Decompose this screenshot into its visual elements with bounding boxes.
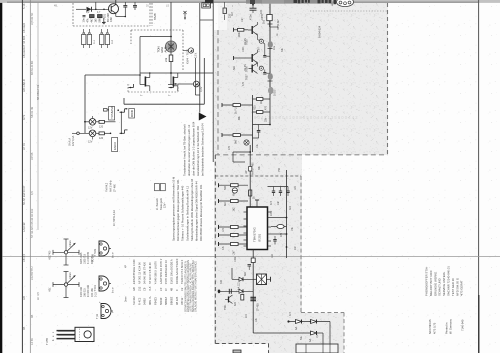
svg-text:LF 4,5: LF 4,5 (36, 292, 40, 300)
svg-text:T501: T501 (224, 304, 227, 310)
svg-text:4B 325: 4B 325 (175, 296, 179, 305)
jack corner 3 (129, 84, 134, 88)
svg-text:44 040 186: 44 040 186 (87, 284, 90, 297)
package P1 pin labels (111, 252, 115, 258)
svg-text:1k8: 1k8 (271, 253, 274, 258)
return wire (124, 58, 204, 104)
svg-text:5BB4Z: 5BB4Z (164, 297, 168, 305)
wire emitter (115, 13, 117, 16)
svg-text:4k7: 4k7 (90, 18, 94, 23)
wire h279 left (232, 268, 253, 279)
wire top rail to pot (170, 2, 172, 41)
lamp LA2 (72, 130, 96, 144)
svg-text:560: 560 (224, 185, 227, 190)
module border bottom of tuner (215, 154, 388, 156)
svg-text:470: 470 (280, 232, 283, 237)
module border radio bottom (215, 343, 268, 345)
svg-text:2n2: 2n2 (245, 313, 248, 318)
module border tuner right (387, 3, 389, 155)
wire drop x253 (252, 4, 254, 8)
resistor R601 (90, 15, 95, 23)
ladder rail left (252, 95, 254, 152)
svg-text:6k8: 6k8 (244, 271, 247, 276)
wire y75 (85, 74, 140, 76)
potentiometer TON (165, 41, 176, 52)
wire input (76, 8, 86, 10)
capacitor C601 (123, 2, 127, 16)
svg-text:UP 05: UP 05 (30, 152, 34, 160)
svg-text:4B: 4B (54, 4, 57, 7)
svg-text:AB 4,5: AB 4,5 (22, 253, 26, 262)
wire branch left (139, 37, 141, 85)
cross2 value list (80, 284, 97, 297)
transistor package P3 (96, 304, 113, 320)
svg-text:3045 1505: 3045 1505 (80, 252, 83, 264)
resistor R651 (262, 4, 279, 27)
wire pot tie (140, 36, 171, 38)
svg-text:HF 3N: HF 3N (244, 64, 247, 71)
package P1 note (92, 253, 95, 262)
svg-text:50u: 50u (300, 335, 303, 340)
resistor R672 (219, 199, 249, 212)
margin line 3 (37, 2, 39, 230)
svg-text:ST 42 071 B 40 40: ST 42 071 B 40 40 (148, 262, 152, 284)
top rule (0, 0, 500, 3)
resistor R676 (219, 242, 249, 255)
boxed label TONBAND (109, 106, 115, 120)
svg-text:LAUTSPR 4O POTI 1: LAUTSPR 4O POTI 1 (159, 258, 163, 284)
horizontal separator rule (2, 255, 500, 257)
svg-text:220k: 220k (270, 210, 273, 216)
bus tie (200, 19, 213, 21)
svg-text:1505 718: 1505 718 (84, 253, 87, 264)
module border radio bottom drop (268, 344, 270, 353)
labels cluster top right (261, 13, 280, 30)
resistor R671 (219, 183, 249, 196)
svg-text:GRUNDIG WERKE: GRUNDIG WERKE (433, 272, 437, 296)
svg-text:100k: 100k (234, 256, 237, 262)
diode D671 (239, 277, 243, 281)
cluster c1 (104, 109, 110, 112)
inner dashed box top (215, 175, 301, 177)
ghost text band (254, 115, 358, 120)
svg-text:41 150 705: 41 150 705 (87, 251, 90, 264)
svg-text:ZF 460: ZF 460 (114, 183, 117, 192)
labels ladder (254, 105, 268, 122)
wire pin right 234 (271, 233, 287, 235)
wire pin right 217 (271, 217, 287, 219)
svg-text:4,5: 4,5 (30, 191, 34, 195)
wire diode to base (92, 8, 109, 10)
svg-text:22n: 22n (294, 245, 297, 250)
svg-text:1L2: 1L2 (111, 39, 114, 44)
svg-text:120: 120 (99, 137, 104, 140)
svg-text:220: 220 (260, 9, 263, 14)
svg-text:R659 4k7: R659 4k7 (277, 19, 280, 30)
svg-text:AB GER: AB GER (22, 23, 26, 33)
svg-text:Stellung Rundfunk UKW Messbedi: Stellung Rundfunk UKW Messbedingungen oh… (190, 178, 194, 241)
right page border (478, 0, 480, 353)
bottom connector box (296, 344, 338, 353)
resistor R-LA2 (96, 132, 111, 140)
svg-text:10mm: 10mm (69, 272, 72, 279)
svg-text:5k6: 5k6 (233, 65, 236, 70)
svg-text:FM 94,2: FM 94,2 (106, 182, 109, 192)
svg-text:SH 302: SH 302 (132, 296, 136, 305)
transistor FET1 (140, 73, 150, 96)
svg-text:Spannungsangaben gemessen mit: Spannungsangaben gemessen mit Rohrenvolt… (172, 176, 176, 241)
dashed enclosure input stage (73, 3, 150, 26)
svg-text:U(TCR 5F: U(TCR 5F (30, 12, 34, 25)
left film edge bar (0, 0, 2, 353)
component cluster top module edge (223, 2, 232, 20)
svg-text:ERSATZTEILE 4 040: ERSATZTEILE 4 040 (132, 259, 136, 284)
wire stub (95, 2, 97, 9)
svg-text:SACHNR 72140-940.01: SACHNR 72140-940.01 (447, 266, 451, 296)
svg-text:AA: AA (295, 326, 298, 330)
label cluster (86, 11, 113, 22)
svg-text:b c e: b c e (111, 287, 115, 293)
svg-text:50 AP EM 50 07: 50 AP EM 50 07 (22, 185, 26, 205)
junction dots input (95, 9, 105, 11)
wire v253 below IC (252, 250, 254, 334)
svg-text:4/73 0,75: 4/73 0,75 (433, 322, 437, 334)
svg-text:330: 330 (220, 279, 223, 284)
svg-text:0,8V: 0,8V (259, 47, 261, 52)
svg-text:T657: T657 (246, 74, 249, 80)
shaded module notch region (301, 313, 344, 353)
transistor T652 (246, 50, 259, 72)
transistor T671 (224, 295, 233, 310)
svg-text:R 4C2: R 4C2 (137, 297, 141, 305)
svg-text:7L5: 7L5 (148, 286, 152, 291)
svg-text:13V~: 13V~ (163, 202, 166, 208)
svg-text:2k7: 2k7 (233, 250, 236, 255)
transistor T653 (246, 63, 258, 80)
svg-text:14 56: 14 56 (30, 338, 34, 345)
svg-text:100n: 100n (242, 46, 245, 52)
svg-text:ST 42 AP1 05 30 02 031: ST 42 AP1 05 30 02 031 (30, 208, 34, 238)
rung wire y124 (253, 124, 271, 126)
cap pair below IC (248, 265, 252, 271)
rung resistor R662 (253, 111, 271, 114)
margin line 1 (21, 0, 23, 353)
IC pins left (244, 212, 248, 246)
bus stub ticks (268, 24, 273, 81)
svg-text:AB GERAT 44 804: AB GERAT 44 804 (22, 35, 26, 58)
electrolytic blob3 (268, 87, 277, 96)
rung wire y138 (253, 137, 259, 139)
jack corner 1 (120, 108, 128, 113)
parts list sparse left (124, 265, 127, 302)
test point TP2 (259, 66, 263, 70)
shaded tuner module region (227, 0, 388, 155)
capacitor C653 (263, 70, 270, 75)
stub resistor row2 (234, 56, 249, 60)
svg-text:MELODY BOY 1000: MELODY BOY 1000 (429, 270, 433, 296)
svg-text:GB: GB (22, 296, 26, 300)
svg-text:1k FU: 1k FU (235, 107, 238, 114)
svg-text:4/73 GERAT: 4/73 GERAT (460, 280, 464, 296)
tuning indicator dial (332, 0, 354, 7)
dashed jack box (128, 84, 178, 92)
svg-text:POTI 10kB ELKO 10: POTI 10kB ELKO 10 (164, 260, 168, 284)
shaded radio module region (214, 30, 302, 344)
resistor R673 vertical (249, 190, 256, 199)
svg-text:T 655: T 655 (45, 337, 49, 345)
svg-text:7140-940: 7140-940 (461, 319, 465, 331)
svg-text:MONO: MONO (132, 110, 134, 117)
svg-text:22k: 22k (164, 57, 168, 62)
rung resistor R661 (253, 98, 271, 101)
arrow marker (199, 113, 207, 121)
module border radio right (300, 176, 302, 313)
margin notes column A (22, 3, 26, 330)
diode D672 (239, 289, 243, 293)
resistor R-pot (164, 52, 173, 85)
ceramic filter CF1 (253, 274, 270, 285)
cap C663 (257, 125, 261, 139)
svg-text:AA: AA (309, 338, 312, 342)
svg-text:4k7: 4k7 (231, 11, 234, 16)
bus wire C (195, 58, 199, 95)
svg-text:C8: C8 (143, 287, 147, 291)
diode D697 (309, 331, 317, 342)
fm list labels (106, 180, 117, 192)
transistor FET2 (168, 73, 178, 96)
svg-text:100u: 100u (274, 90, 277, 96)
svg-text:ZF 455: ZF 455 (257, 303, 260, 311)
svg-text:+: + (99, 300, 101, 304)
svg-text:AA 112: AA 112 (238, 282, 241, 290)
svg-text:TBA 570 G: TBA 570 G (253, 227, 257, 242)
svg-text:4B: 4B (30, 315, 34, 318)
svg-text:FB4Z3: FB4Z3 (153, 297, 157, 305)
junction loop (249, 145, 251, 176)
lamp LA1 (85, 116, 96, 130)
svg-text:2k2: 2k2 (260, 99, 263, 104)
svg-text:120: 120 (99, 125, 104, 128)
svg-text:560: 560 (98, 18, 102, 23)
wire to bus via cap (263, 43, 265, 57)
svg-text:1k5: 1k5 (95, 18, 98, 23)
wire h321 (287, 320, 330, 322)
svg-text:1k2: 1k2 (233, 207, 236, 212)
package P2 pin labels (111, 287, 115, 293)
svg-text:AUS: AUS (164, 46, 168, 52)
choke L691 (250, 297, 259, 311)
svg-text:IS 201: IS 201 (258, 233, 262, 242)
diode D601 (87, 7, 92, 12)
svg-text:8k2: 8k2 (224, 201, 227, 206)
svg-text:TEST GER 30: TEST GER 30 (451, 278, 455, 296)
svg-text:DIODE AA112 TRAF0: DIODE AA112 TRAF0 (175, 258, 179, 284)
svg-text:100k: 100k (238, 31, 241, 37)
svg-text:RADIO: RADIO (113, 142, 117, 150)
svg-text:uber die DIN Buchse 1-3 angesc: uber die DIN Buchse 1-3 angeschlossen B … (191, 121, 195, 176)
cap C681 (270, 187, 275, 206)
margin notes column B (30, 12, 34, 345)
svg-text:TA/B: TA/B (153, 13, 157, 20)
svg-text:C/UTDTTU: C/UTDTTU (30, 267, 34, 280)
svg-text:10n: 10n (82, 18, 86, 23)
junction gate1 (139, 74, 141, 76)
package P3 marks (99, 300, 114, 314)
resistor R675 (219, 233, 249, 237)
svg-text:m. Bereich: m. Bereich (156, 197, 159, 210)
wire h333 (253, 332, 310, 334)
svg-text:Geratesicherung 0,2A tr. bei N: Geratesicherung 0,2A tr. bei Netzbetr. 4… (196, 125, 200, 176)
title block text (425, 266, 464, 296)
svg-text:Messbedingungen ohne Signal DI: Messbedingungen ohne Signal DIN 45500 Hi… (195, 181, 199, 241)
switch contact block S1 (82, 29, 97, 48)
svg-text:4 040 186 X LAUT0: 4 040 186 X LAUT0 (153, 261, 157, 284)
resistor R685 (271, 225, 287, 238)
bus wire A (199, 3, 201, 113)
svg-text:bei Netzbetrieb beachten Siche: bei Netzbetrieb beachten Sicherung 0,2A … (200, 123, 204, 176)
junction v286 bottom (286, 246, 288, 248)
svg-text:Rohrenvoltmeter gegen Masse ge: Rohrenvoltmeter gegen Masse gemessen Tol… (176, 179, 180, 241)
svg-text:Printed in: Printed in (445, 322, 449, 334)
svg-text:GRUNDIG WERKE FURTH BAYERN SER: GRUNDIG WERKE FURTH BAYERN SERVICE (195, 261, 198, 312)
test point TP1 (258, 39, 264, 43)
svg-text:LAUFW.: LAUFW. (22, 222, 26, 232)
svg-text:10u: 10u (256, 143, 259, 148)
svg-text:5B 05/LP 01: 5B 05/LP 01 (36, 84, 40, 100)
svg-text:HE(745): HE(745) (49, 251, 52, 260)
svg-text:BATLLR 6D: BATLLR 6D (30, 61, 34, 75)
capacitor C652 (263, 54, 270, 58)
component box below IC (251, 258, 255, 263)
IC top pin (255, 200, 259, 207)
svg-text:b c e: b c e (111, 252, 115, 258)
wire v250 (249, 176, 251, 207)
svg-text:BC 238: BC 238 (92, 253, 95, 262)
boxed label klein (129, 109, 135, 119)
measurement point MP2 (183, 48, 198, 58)
wire jack tie (120, 112, 122, 133)
antenna symbol (184, 11, 187, 20)
jack corner 2 (120, 130, 128, 134)
title block text lower (428, 318, 465, 334)
measurement point MP (178, 81, 203, 92)
svg-text:NFD 594.05 G: NFD 594.05 G (455, 278, 459, 296)
svg-text:TONBAND: TONBAND (110, 106, 114, 119)
dotted line top right (310, 10, 387, 12)
bus wire main (269, 4, 271, 95)
svg-text:Schalterstellungen in Stellung: Schalterstellungen in Stellung Rundfunk … (185, 185, 189, 241)
small component bottom edge (233, 350, 241, 353)
svg-text:10n: 10n (277, 200, 280, 205)
resistor R663 (222, 103, 253, 114)
svg-text:LS: LS (166, 4, 169, 7)
svg-text:--: -- (154, 289, 157, 291)
svg-text:1L1: 1L1 (93, 39, 96, 44)
svg-text:212: 212 (137, 286, 141, 291)
svg-text:1M: 1M (316, 335, 319, 338)
wire v286 (286, 170, 288, 258)
transistor T601 (109, 3, 119, 14)
svg-text:R25: R25 (254, 105, 257, 110)
cap C691 (229, 289, 231, 294)
module border radio jog (301, 312, 344, 314)
svg-text:54 040 186 ST 420: 54 040 186 ST 420 (143, 261, 147, 284)
resistor R-LA1 (96, 120, 116, 128)
capacitor C603 (82, 16, 86, 23)
transistor package P2 (94, 276, 111, 292)
svg-text:DIN 45500 Hinweis Messung mit: DIN 45500 Hinweis Messung mit Bandfilter… (199, 184, 203, 241)
cap C683 (286, 187, 289, 197)
svg-text:Tonabnehmer Anschl. bei TB-Bet: Tonabnehmer Anschl. bei TB-Betr. abschal… (182, 124, 186, 176)
top rule tick labels (54, 4, 233, 8)
svg-text:12V: 12V (88, 141, 93, 144)
resistor R602 (98, 15, 103, 23)
cross1 value list (80, 251, 94, 264)
module border radio right drop (343, 313, 345, 353)
legend symbol boxes (155, 184, 166, 191)
svg-text:1n5: 1n5 (222, 227, 225, 232)
wire v85 (84, 75, 86, 133)
label TON EIN (157, 46, 168, 52)
svg-text:4B: 4B (22, 327, 26, 330)
svg-text:ELKO 100u DIODE A: ELKO 100u DIODE A (169, 259, 173, 284)
svg-text:12V 0,1A: 12V 0,1A (72, 135, 75, 146)
resistor R664 (222, 133, 253, 144)
diode D696 (310, 320, 317, 324)
svg-text:5-18: 5-18 (22, 3, 26, 9)
lamp symbol mid (244, 140, 249, 145)
cap C684 (273, 236, 276, 245)
capacitor C651 (249, 8, 257, 20)
svg-text:GB: GB (132, 287, 136, 291)
svg-text:3mm: 3mm (124, 296, 127, 302)
svg-text:AM-ZF 460: AM-ZF 460 (252, 162, 255, 175)
svg-text:10mm: 10mm (69, 240, 72, 247)
transistor package P1 (94, 241, 111, 257)
svg-text:5k6: 5k6 (235, 139, 238, 144)
svg-text:T 41: T 41 (96, 313, 99, 319)
svg-text:SCHALT UND: SCHALT UND (438, 278, 442, 296)
connector J601 (202, 3, 211, 8)
svg-text:KW4 - 7016: KW4 - 7016 (186, 49, 190, 64)
loop wire (233, 152, 250, 162)
svg-text:BC 238: BC 238 (106, 13, 110, 22)
module border tuner left (217, 30, 219, 155)
boxed label RADIO (112, 138, 118, 152)
power transistor TO220 (52, 327, 94, 341)
svg-text:10,7MHz-0,1A: 10,7MHz-0,1A (113, 210, 116, 226)
electrolytic blob1 (268, 41, 276, 50)
svg-text:SB 01 49: SB 01 49 (30, 106, 34, 118)
wire v330 (329, 322, 331, 345)
junction lamp1 (84, 121, 86, 123)
svg-text:470: 470 (242, 81, 245, 86)
junction pot (170, 36, 172, 38)
parts list table (132, 258, 184, 305)
svg-text:1k5: 1k5 (294, 185, 297, 190)
hf labels (244, 38, 261, 71)
resistor R691 vertical (241, 295, 244, 301)
top edge glyph fragments (294, 0, 337, 4)
top dark bus bar (246, 0, 332, 4)
svg-text:4n7: 4n7 (270, 200, 273, 205)
svg-text:2,1V: 2,1V (195, 53, 198, 58)
diode D695 (295, 320, 302, 331)
connector header dark segment (205, 0, 214, 3)
wire h190 (250, 189, 286, 191)
bus wire B (212, 3, 214, 162)
svg-text:470n: 470n (249, 14, 253, 20)
